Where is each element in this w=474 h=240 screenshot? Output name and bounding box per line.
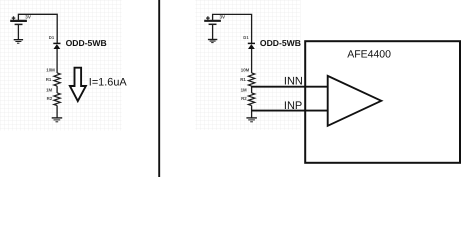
grid paper left panel: [0, 0, 122, 131]
ground under battery (right): [208, 40, 217, 43]
resistor R1: [54, 73, 60, 86]
wire diode to R1: [56, 49, 58, 73]
wire R1 to R2 with INN node (right): [251, 86, 253, 93]
ground under R2 (right): [246, 118, 257, 122]
svg-text:1M: 1M: [241, 87, 247, 92]
svg-text:ODD-5WB: ODD-5WB: [260, 38, 301, 48]
svg-text:I=1.6uA: I=1.6uA: [89, 76, 128, 88]
ground under battery: [14, 40, 23, 44]
IC U1 AFE4400 box: [305, 41, 460, 163]
wire battery to ground: [17, 24, 19, 39]
wire R2 to ground: [56, 106, 58, 118]
op-amp input stage triangle: [328, 76, 382, 126]
svg-text:INP: INP: [284, 100, 302, 112]
svg-text:10M: 10M: [46, 67, 55, 72]
svg-text:3V: 3V: [25, 14, 32, 19]
panel divider: [158, 0, 160, 177]
wire R2 to ground (right): [251, 106, 253, 118]
wire battery top to diode: [18, 14, 57, 43]
svg-text:R2: R2: [47, 96, 53, 101]
resistor R2: [54, 93, 60, 106]
current direction arrow: [70, 68, 86, 101]
svg-text:D1: D1: [49, 35, 55, 40]
wire INP net: [252, 110, 328, 112]
wire battery top to diode (right): [213, 14, 252, 43]
ground under R2: [52, 118, 63, 122]
svg-text:AFE4400: AFE4400: [347, 49, 391, 61]
svg-text:ODD-5WB: ODD-5WB: [66, 38, 107, 48]
svg-text:3V: 3V: [220, 14, 227, 19]
svg-text:INN: INN: [284, 75, 303, 87]
battery V1 plus sign: [12, 16, 16, 20]
svg-text:D1: D1: [243, 35, 249, 40]
battery V2: [204, 21, 221, 25]
battery V1: [10, 21, 27, 25]
svg-text:1M: 1M: [46, 87, 52, 92]
wire INN net: [252, 86, 328, 88]
svg-text:R1: R1: [240, 77, 246, 82]
svg-text:R1: R1: [46, 77, 52, 82]
wire diode to R1 (right): [251, 49, 253, 73]
grid paper right panel: [195, 0, 300, 130]
resistor R2 (right): [248, 93, 254, 106]
wire R1 to R2: [56, 86, 58, 93]
wire battery to ground (right): [212, 24, 214, 39]
resistor R1 (right): [248, 73, 254, 86]
svg-text:10M: 10M: [241, 67, 250, 72]
diode D1: [53, 43, 60, 49]
battery V2 plus sign: [206, 16, 210, 20]
diode D1 (right): [248, 43, 255, 49]
svg-text:R2: R2: [241, 96, 247, 101]
